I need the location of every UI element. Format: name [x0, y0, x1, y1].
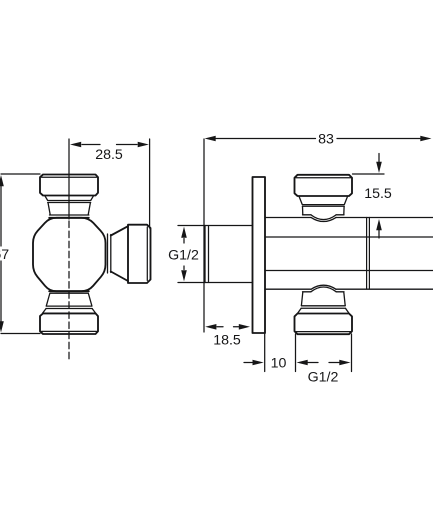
centerline dashed — [68, 221, 70, 359]
side view: bottom fitting neck — [298, 292, 349, 313]
arrow down of 67 — [0, 321, 4, 332]
front view: top fitting neck — [45, 196, 94, 215]
arrow right of G1/2 bottom — [339, 360, 350, 366]
front view: bottom fitting neck — [43, 294, 96, 314]
side view: bottom fitting saddle — [303, 285, 345, 292]
svg-text:15.5: 15.5 — [364, 186, 392, 202]
arrow right of 83 — [420, 136, 431, 142]
side view: top fitting flange — [295, 175, 353, 196]
dimension 18.5 — [217, 326, 239, 328]
svg-text:G1/2: G1/2 — [168, 248, 199, 264]
dimension 15.5 — [353, 154, 385, 239]
arrow left of 18.5 — [205, 324, 216, 330]
svg-text:83: 83 — [318, 132, 334, 148]
arrow up of 15.5 — [376, 219, 382, 230]
arrow of 10 — [253, 360, 264, 366]
front view: bottom fitting flange — [40, 313, 98, 334]
side view: top fitting saddle — [303, 215, 345, 222]
dimension G1/2 left — [183, 239, 185, 270]
front view: outlet flange — [128, 225, 151, 283]
front view: top fitting flange — [40, 175, 98, 196]
dimension G1/2 bottom — [296, 334, 352, 372]
front view: outlet cone — [111, 226, 128, 281]
arrow left of G1/2 bottom — [297, 360, 308, 366]
front view: outlet joint face — [108, 234, 111, 273]
dimension 28.5 — [82, 139, 150, 228]
side view: wall plate — [253, 177, 266, 333]
arrow up of 67 — [0, 175, 4, 186]
svg-text:18.5: 18.5 — [213, 333, 241, 349]
arrow left of 83 — [205, 136, 216, 142]
arrow right of 28.5 — [138, 142, 149, 148]
arrow left of 28.5 — [70, 142, 81, 148]
dimension 83 — [204, 139, 420, 333]
arrow right of 18.5 — [239, 324, 250, 330]
dimension 10 — [244, 333, 265, 372]
front view: bottom collar — [49, 291, 89, 293]
dimension 67 left — [1, 174, 40, 334]
svg-text:G1/2: G1/2 — [308, 370, 339, 386]
svg-text:67: 67 — [0, 247, 9, 263]
side view: pipe left segment — [178, 226, 253, 283]
front view: top collar — [49, 215, 89, 218]
side view: bottom fitting flange — [295, 314, 353, 335]
svg-text:10: 10 — [271, 356, 287, 372]
arrow up of G1/2 left — [181, 227, 187, 238]
arrow down of G1/2 left — [181, 270, 187, 281]
side view: pipe seam — [367, 218, 370, 290]
side view: top fitting neck — [299, 196, 348, 215]
svg-text:28.5: 28.5 — [95, 147, 123, 163]
front view: valve body octagon — [33, 218, 106, 291]
arrow down of 15.5 — [376, 162, 382, 173]
centerline solid upper part — [68, 139, 70, 219]
side view: pipe right segment — [265, 218, 433, 290]
